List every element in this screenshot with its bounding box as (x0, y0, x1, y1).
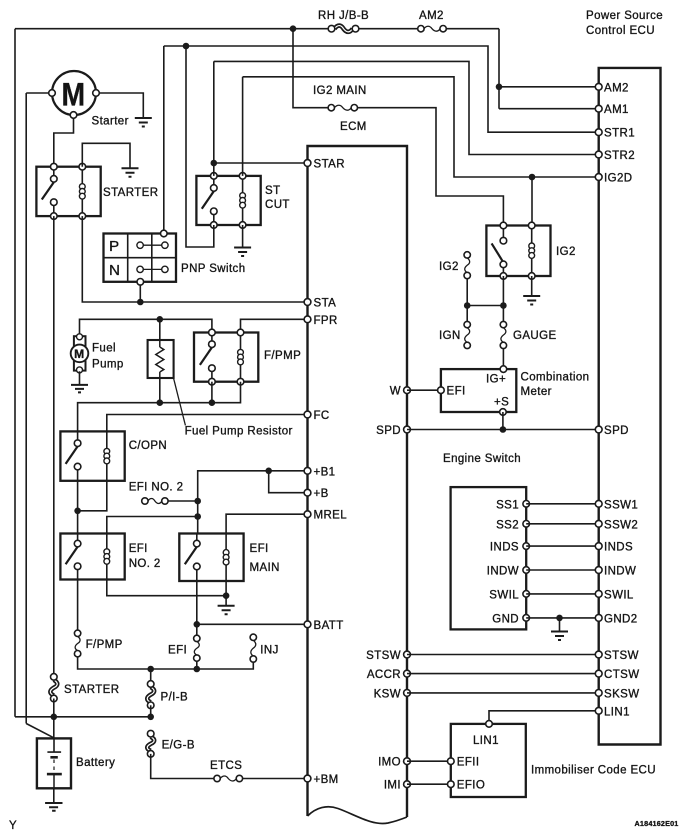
wire W net (407, 389, 441, 391)
wire starter motor right to ground (96, 93, 143, 118)
wire STR2 net (214, 61, 599, 154)
svg-text:+B1: +B1 (314, 466, 336, 478)
svg-text:SKSW: SKSW (604, 688, 639, 700)
pin CTSW (ECU) (595, 669, 639, 681)
svg-text:AM2: AM2 (604, 82, 629, 94)
pin +B (304, 488, 329, 500)
ground (IG2 relay coil) (523, 296, 540, 305)
relay F/PMP (194, 329, 301, 385)
pin AM2 (ECU) (595, 82, 629, 94)
fuse ETCS (210, 760, 243, 782)
pin STR2 (ECU) (595, 150, 635, 162)
wire EFI NO.2 coil / EFI MAIN coil returns (107, 580, 226, 606)
svg-text:STSW: STSW (604, 650, 639, 662)
pin IG2D (ECU) (595, 173, 632, 185)
svg-text:EFII: EFII (457, 757, 480, 769)
wire FC net (107, 415, 308, 432)
svg-text:C/OPN: C/OPN (129, 440, 167, 452)
svg-text:MAIN: MAIN (250, 562, 280, 574)
relay EFI MAIN (179, 534, 280, 582)
junction IG2 node right (500, 302, 507, 309)
svg-text:Starter: Starter (92, 116, 129, 128)
svg-text:P/I-B: P/I-B (161, 692, 189, 704)
fuse EFI NO. 2 (129, 482, 184, 505)
wire PNP switch top feed (163, 46, 165, 234)
svg-text:INDS: INDS (604, 542, 633, 554)
wire starter motor to STARTER relay (54, 115, 74, 167)
fuse IG2 (439, 252, 470, 279)
wire GND to GND2 (526, 617, 599, 619)
svg-text:IGN: IGN (439, 330, 461, 342)
fuse GAUGE (500, 321, 556, 348)
svg-text:EFI: EFI (250, 543, 269, 555)
wire STR1 net (164, 46, 599, 132)
switch PNP Switch (104, 230, 246, 285)
svg-text:W: W (390, 386, 401, 398)
relay EFI NO. 2 (60, 534, 160, 580)
svg-text:Engine Switch: Engine Switch (443, 453, 521, 465)
svg-text:STARTER: STARTER (103, 187, 158, 199)
wire STSW net (407, 654, 599, 656)
ground (STARTER relay coil) (122, 168, 139, 177)
wire INDS net (526, 545, 599, 547)
junction STAR / ST CUT (211, 160, 218, 167)
pin GND2 (ECU) (595, 613, 637, 625)
svg-text:ECM: ECM (340, 121, 367, 133)
svg-text:N: N (109, 262, 120, 279)
pin INDS (ECU) (595, 542, 633, 554)
junction battery bus / E G-B link (147, 714, 154, 721)
fuse AM2 (top) (418, 10, 447, 32)
svg-text:M: M (62, 77, 86, 113)
wire SS2 to SSW2 (526, 523, 599, 525)
junction IG2 node left (464, 302, 471, 309)
svg-text:FPR: FPR (314, 315, 338, 327)
svg-text:Power Source: Power Source (586, 10, 663, 22)
wire FPR net left (fuel pump / resistor / F-PMP switch) (80, 319, 212, 336)
svg-text:ACCR: ACCR (367, 669, 401, 681)
junction on top bus at IG2 MAIN drop (290, 25, 297, 32)
svg-text:Combination: Combination (521, 372, 590, 384)
pin SSW1 (ECU) (595, 499, 638, 511)
svg-text:CUT: CUT (265, 199, 290, 211)
ground (engine switch GND) (551, 632, 568, 641)
svg-text:Fuel Pump Resistor: Fuel Pump Resistor (185, 426, 293, 438)
wire STARTER relay coil to ground (82, 143, 130, 168)
wire E/G-B to ETCS / +BM net (151, 754, 308, 779)
pin STA (304, 298, 336, 310)
svg-text:+B: +B (314, 488, 329, 500)
svg-text:IG2: IG2 (439, 261, 459, 273)
wire GND ground stem (559, 618, 561, 632)
svg-text:KSW: KSW (374, 688, 401, 700)
svg-text:SSW1: SSW1 (604, 499, 638, 511)
wire IG2 MAIN net (293, 29, 503, 226)
fuse F/PMP (74, 630, 122, 657)
motor M1 Starter (49, 71, 129, 128)
svg-text:STAR: STAR (314, 159, 345, 171)
svg-text:EFI NO. 2: EFI NO. 2 (129, 482, 184, 494)
svg-text:AM1: AM1 (604, 104, 629, 116)
svg-text:F/PMP: F/PMP (86, 639, 123, 651)
wire IMO to EFII (407, 760, 451, 762)
svg-text:RH J/B-B: RH J/B-B (318, 10, 369, 22)
junction AM2 branch (496, 84, 503, 91)
svg-text:+BM: +BM (314, 774, 339, 786)
pin KSW (374, 688, 411, 700)
pin SWIL (ECU) (595, 589, 634, 601)
pin +B1 (304, 466, 335, 478)
wire EFI NO.2 fuse to EFI MAIN switch (168, 501, 198, 534)
wire fuel pump to ground (79, 371, 81, 385)
junction bus / EFI fuse (194, 666, 201, 673)
wire EFI NO.2 switch to F/PMP fuse (77, 580, 79, 631)
svg-text:INDW: INDW (487, 566, 519, 578)
ground (ST CUT coil) (234, 248, 251, 257)
svg-text:Y: Y (9, 820, 17, 832)
svg-text:Control ECU: Control ECU (586, 25, 655, 37)
svg-text:PNP Switch: PNP Switch (181, 263, 246, 275)
fuse EFI (168, 635, 200, 661)
svg-text:STA: STA (314, 298, 337, 310)
wire fuel pump bus (78, 382, 241, 432)
ground (EFI MAIN coil) (218, 606, 235, 615)
junction EFI NO.2 coil branch (194, 513, 201, 520)
fusible link P/I-B (147, 681, 188, 709)
wire LIN1 net (489, 711, 599, 724)
wire INDW net (526, 569, 599, 571)
junction GND ground tap (556, 615, 563, 622)
svg-text:EFI: EFI (447, 386, 466, 398)
svg-text:FC: FC (314, 410, 330, 422)
ECU ECM box (308, 121, 408, 823)
pin +BM (304, 774, 339, 786)
svg-text:SSW2: SSW2 (604, 519, 638, 531)
battery B1 (37, 738, 115, 788)
svg-text:Fuel: Fuel (92, 343, 116, 355)
pin SSW2 (ECU) (595, 519, 638, 531)
junction STR1 net / ST CUT switch return (183, 43, 190, 50)
svg-text:EFI: EFI (168, 645, 187, 657)
svg-text:INJ: INJ (260, 645, 278, 657)
wire STARTER link to battery bus (53, 699, 55, 717)
svg-text:ETCS: ETCS (210, 760, 242, 772)
fuse INJ (250, 634, 279, 662)
pin LIN1 (ECU) (595, 706, 630, 718)
svg-text:Meter: Meter (521, 386, 552, 398)
pin IMI (384, 780, 411, 792)
wire SPD net (407, 412, 599, 430)
pin FPR (304, 315, 338, 327)
svg-text:A184162E01: A184162E01 (635, 819, 679, 828)
junction coil return / ground (223, 592, 230, 599)
wire GAUGE fuse to combination meter (502, 349, 504, 370)
wire EFI NO.2 coil feed (107, 517, 198, 534)
svg-text:LIN1: LIN1 (604, 706, 630, 718)
svg-text:INDW: INDW (604, 566, 636, 578)
wire fuse return bus (78, 657, 254, 681)
relay STARTER (36, 163, 158, 219)
svg-text:MREL: MREL (314, 510, 348, 522)
fusible link E/G-B (147, 730, 195, 757)
fuse IGN (439, 321, 470, 348)
wire resistor bottom to pump bus (159, 378, 161, 403)
svg-text:CTSW: CTSW (604, 669, 639, 681)
svg-text:Pump: Pump (92, 359, 124, 371)
wire MREL net (226, 514, 307, 533)
junction pump bus / resistor (157, 399, 164, 406)
svg-text:IG2 MAIN: IG2 MAIN (313, 85, 367, 97)
pin FC (304, 410, 330, 422)
fusible link RH J/B-B (318, 10, 369, 32)
svg-text:STSW: STSW (366, 650, 401, 662)
pin AM1 (ECU) (595, 104, 629, 116)
wire battery top feed (53, 717, 55, 739)
junction IG2D to IG2 relay coil (529, 174, 536, 181)
junction bus / P I-B link (147, 666, 154, 673)
svg-text:SWIL: SWIL (604, 589, 634, 601)
junction battery bus / STARTER link (51, 714, 58, 721)
ECU Power Source Control ECU box (586, 10, 663, 745)
junction pump bus / F-PMP switch (209, 399, 216, 406)
wire IG2D net (243, 77, 599, 177)
pin STAR (304, 159, 345, 171)
svg-text:SPD: SPD (376, 425, 401, 437)
wire C/OPN coil return (78, 481, 107, 511)
wire AM2 top bus (15, 29, 599, 109)
wire PNP switch bottom to STA (139, 282, 141, 302)
svg-text:STR1: STR1 (604, 128, 635, 140)
svg-text:Immobiliser Code ECU: Immobiliser Code ECU (531, 765, 656, 777)
wire battery bus (15, 716, 151, 718)
wire ACCR to CTSW (407, 673, 599, 675)
wire STARTER relay switch down to fusible link (53, 216, 55, 677)
svg-text:P: P (109, 238, 120, 255)
wire IG2 relay coil feed (531, 177, 533, 226)
svg-text:SS1: SS1 (496, 499, 519, 511)
wire +B1 net (198, 471, 308, 501)
pin INDW (ECU) (595, 566, 636, 578)
wire +B net (269, 471, 308, 493)
svg-text:M: M (74, 347, 85, 361)
ECU Immobiliser Code ECU box (448, 721, 656, 797)
pin SPD (ECU) (595, 425, 629, 437)
svg-text:STARTER: STARTER (64, 684, 119, 696)
wire left rail (battery feed) (14, 29, 16, 717)
meter Combination Meter (438, 366, 590, 416)
wire F/PMP switch bottom drop (211, 382, 213, 403)
switch block Engine Switch (451, 487, 530, 629)
wire ST CUT switch top to STAR (214, 61, 308, 175)
wire ST CUT switch bottom return (186, 46, 214, 247)
pin STSW (366, 650, 410, 662)
svg-text:GND: GND (492, 613, 519, 625)
relay C/OPN (60, 431, 167, 480)
pin BATT (304, 620, 344, 632)
svg-text:SPD: SPD (604, 425, 629, 437)
pin SPD (376, 425, 410, 437)
svg-text:GND2: GND2 (604, 613, 638, 625)
pin STSW (ECU) (595, 650, 639, 662)
svg-text:E/G-B: E/G-B (162, 740, 195, 752)
pin ACCR (367, 669, 411, 681)
svg-text:NO. 2: NO. 2 (129, 558, 161, 570)
wire ST CUT coil to ground (242, 225, 244, 248)
ground (starter motor right) (135, 118, 152, 127)
svg-text:IG2: IG2 (556, 246, 576, 258)
resistor Fuel Pump Resistor (148, 340, 293, 438)
junction STA / PNP switch (137, 299, 144, 306)
fuse IG2 MAIN (313, 85, 367, 111)
svg-text:GAUGE: GAUGE (513, 330, 557, 342)
junction BATT / EFI fuse (194, 621, 201, 628)
relay ST CUT (196, 173, 289, 229)
svg-text:IMI: IMI (384, 780, 401, 792)
wire IG2 switch output node (467, 276, 503, 328)
svg-text:EFI: EFI (129, 543, 148, 555)
wire STA net (82, 216, 307, 302)
svg-text:STR2: STR2 (604, 150, 635, 162)
wire IMI to EFIO (407, 783, 451, 785)
motor M2 Fuel Pump (71, 334, 124, 373)
wire C/OPN switch bottom to EFI NO.2 (77, 481, 79, 534)
svg-text:SS2: SS2 (496, 519, 519, 531)
svg-text:EFIO: EFIO (457, 780, 485, 792)
junction C/OPN returns (74, 508, 81, 515)
fusible link STARTER (50, 674, 119, 702)
svg-text:ST: ST (265, 185, 281, 197)
pin MREL (304, 510, 347, 522)
svg-text:INDS: INDS (490, 542, 519, 554)
svg-text:SWIL: SWIL (489, 589, 519, 601)
wire FPR net right (coil to FPR pin) (241, 319, 308, 332)
wire P/I-B link to battery bus (150, 705, 152, 717)
svg-text:F/PMP: F/PMP (264, 350, 301, 362)
svg-text:IG+: IG+ (486, 374, 506, 386)
ground (fuel pump) (71, 385, 88, 393)
pin W (390, 386, 411, 398)
wire starter motor left feed (26, 93, 54, 738)
wire IG2 coil to ground (531, 276, 533, 296)
pin SKSW (ECU) (595, 688, 639, 700)
wire KSW to SKSW (407, 692, 599, 694)
wire BATT net (197, 581, 308, 635)
svg-text:BATT: BATT (314, 620, 344, 632)
svg-text:LIN1: LIN1 (473, 735, 499, 747)
wire SS1 to SSW1 (526, 503, 599, 505)
svg-text:IMO: IMO (378, 757, 401, 769)
wire SWIL net (526, 593, 599, 595)
wire battery to ground (53, 788, 55, 803)
junction SPD / meter +S (500, 426, 507, 433)
ground (battery) (45, 803, 62, 811)
junction fuse node (194, 498, 201, 505)
wire ST CUT coil top feed (242, 77, 244, 176)
svg-text:IG2D: IG2D (604, 173, 632, 185)
junction FPR / fuel pump resistor (157, 316, 164, 323)
wire resistor feed (159, 319, 161, 340)
svg-text:+S: +S (494, 397, 509, 409)
relay IG2 (486, 222, 575, 279)
pin STR1 (ECU) (595, 128, 635, 140)
pin IMO (378, 757, 410, 769)
svg-text:Battery: Battery (76, 757, 115, 769)
junction +B1 / +B (265, 468, 272, 475)
svg-text:AM2: AM2 (419, 10, 444, 22)
